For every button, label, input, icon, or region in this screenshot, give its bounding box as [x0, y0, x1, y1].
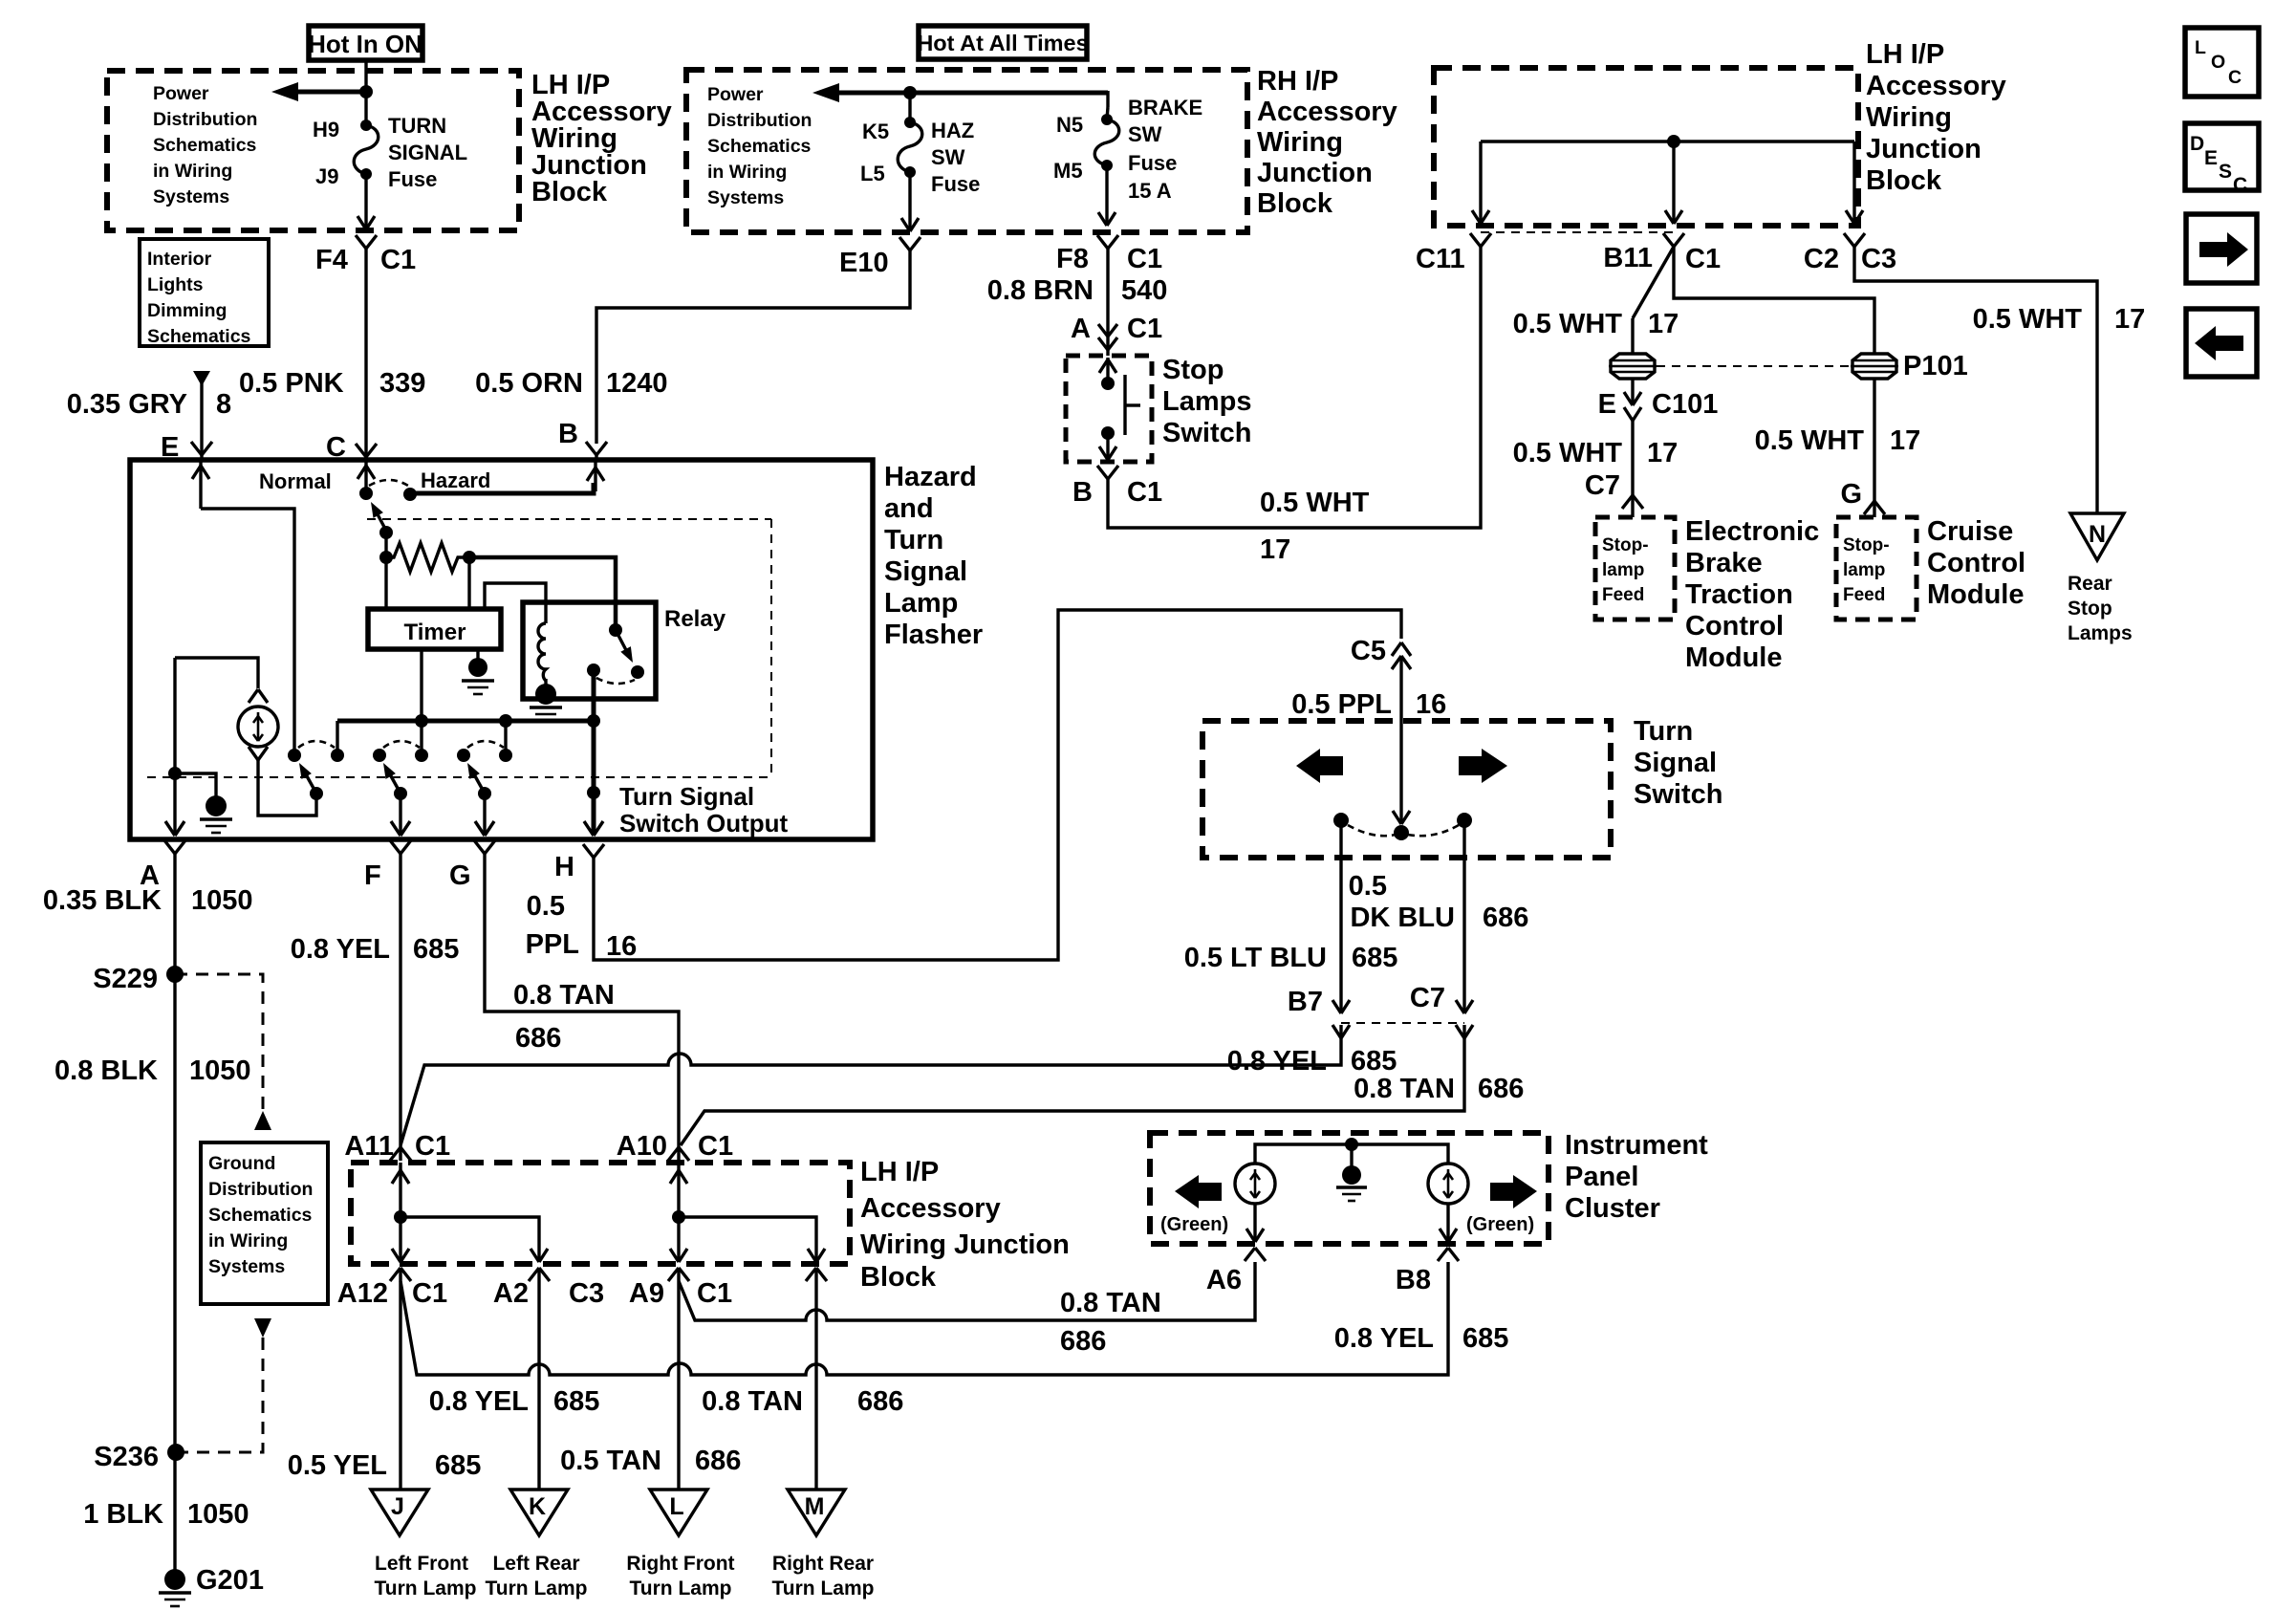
svg-text:J: J	[391, 1493, 404, 1520]
svg-text:685: 685	[413, 934, 459, 965]
icon: left arrow (turn signal)	[1296, 749, 1343, 783]
svg-text:Distribution: Distribution	[153, 109, 257, 130]
value: 0.5 WHT 17 (to EBTCM)	[1513, 438, 1679, 468]
wire: fuse output to F4 with arrow at block edge	[357, 174, 375, 229]
svg-text:Stop: Stop	[1162, 355, 1224, 385]
svg-text:Stop: Stop	[2068, 598, 2112, 620]
pin E / C101	[1598, 389, 1719, 420]
svg-text:0.8 BRN: 0.8 BRN	[987, 275, 1094, 306]
svg-text:Accessory: Accessory	[1257, 97, 1397, 127]
svg-text:N5: N5	[1056, 113, 1083, 137]
svg-text:J9: J9	[315, 164, 338, 188]
svg-text:C1: C1	[697, 1278, 732, 1309]
svg-text:S: S	[2219, 161, 2232, 183]
svg-text:0.5 ORN: 0.5 ORN	[475, 368, 583, 399]
wire: right lamp to B8	[1440, 1204, 1457, 1242]
svg-text:C3: C3	[1861, 244, 1896, 274]
svg-text:(Green): (Green)	[1160, 1214, 1228, 1235]
connector A11/C1 (Y)	[390, 1145, 411, 1161]
svg-text:L: L	[2195, 37, 2206, 58]
svg-text:Power: Power	[707, 84, 764, 105]
svg-text:0.35 GRY: 0.35 GRY	[67, 389, 187, 420]
svg-text:and: and	[884, 493, 934, 524]
value: 0.5 WHT 17 (B11 drop)	[1513, 309, 1679, 339]
svg-text:S236: S236	[94, 1442, 159, 1472]
node: triangle out of ground distribution	[254, 1318, 271, 1338]
text: Cruise Control Module	[1927, 516, 2025, 610]
wire: ground leg of A	[165, 658, 184, 836]
connector M triangle (Right Rear Turn Lamp)	[772, 1490, 875, 1599]
wire: timer left pin to bus	[420, 649, 422, 721]
text: LH I/P Accessory Wiring Junction Block (box1 title)	[531, 70, 672, 207]
wire: dashed down to S236	[177, 1338, 263, 1452]
svg-text:15 A: 15 A	[1128, 179, 1172, 203]
svg-text:Turn: Turn	[884, 525, 943, 555]
svg-text:Distribution: Distribution	[208, 1179, 313, 1200]
wire: C3 to rear stop lamps	[1854, 247, 2097, 513]
nav box LOC	[2185, 28, 2259, 97]
svg-text:D: D	[2190, 133, 2204, 155]
svg-text:A9: A9	[629, 1278, 664, 1309]
connector F4/C1 (Y)	[356, 235, 377, 249]
svg-text:17: 17	[1260, 534, 1290, 565]
svg-text:Systems: Systems	[707, 187, 784, 208]
svg-text:Block: Block	[1866, 165, 1942, 196]
svg-text:B7: B7	[1288, 987, 1323, 1017]
value: 0.8 TAN 686 (A6 feed)	[1060, 1288, 1161, 1357]
fuse F4 TURN SIGNAL (H9/J9)	[354, 120, 379, 180]
text: Power Distribution Schematics in Wiring Systems (box1)	[153, 83, 257, 207]
connector fourth (Y)	[806, 1268, 827, 1281]
value: 0.35 BLK 1050	[43, 885, 253, 916]
switch: relay contact and blade	[587, 623, 644, 684]
node: feed junction dot	[359, 85, 373, 98]
label box "Hot At All Times"	[917, 26, 1088, 59]
wire: Hot In ON feed down to fuse	[364, 60, 367, 125]
wire: E run to switch 1 left contact	[201, 509, 294, 753]
svg-text:F: F	[364, 860, 381, 891]
svg-text:Lamps: Lamps	[1162, 386, 1251, 417]
value: 0.8 TAN 686 (G run)	[513, 980, 615, 1054]
svg-text:686: 686	[1478, 1074, 1524, 1104]
svg-text:0.8 YEL: 0.8 YEL	[1227, 1046, 1327, 1077]
svg-text:0.5 PPL: 0.5 PPL	[1291, 689, 1392, 720]
svg-text:Hot At All Times: Hot At All Times	[917, 31, 1088, 55]
wire: A9 to A6 (0.8 TAN 686 to cluster)	[679, 1262, 1255, 1320]
svg-text:Hazard: Hazard	[884, 462, 977, 492]
node: splice S236	[94, 1442, 184, 1472]
svg-text:Relay: Relay	[664, 606, 726, 632]
value: 0.5 TAN 686 (L)	[560, 1446, 741, 1476]
node: bus dots	[415, 714, 428, 728]
svg-text:O: O	[2211, 52, 2225, 73]
svg-text:B: B	[558, 419, 578, 449]
label box "Hot In ON"	[308, 26, 422, 60]
svg-text:Schematics: Schematics	[208, 1205, 313, 1226]
connector face line B7-C7 (thin dashed)	[1341, 1022, 1464, 1024]
svg-text:0.5: 0.5	[527, 891, 565, 922]
switch: output switch 2 (F)	[373, 741, 428, 836]
svg-text:17: 17	[1647, 438, 1678, 468]
value: 0.5 DK BLU 686	[1349, 871, 1529, 933]
svg-text:Schematics: Schematics	[147, 326, 251, 347]
resistor (flasher timing)	[379, 543, 476, 572]
pin A / C1 at stop lamps switch	[1071, 314, 1162, 344]
svg-text:M: M	[805, 1493, 825, 1520]
wire: dashed S229 to ground distribution	[175, 974, 263, 1111]
value: 0.5 PPL 16 (H drop)	[526, 891, 638, 962]
wire: HAZ fuse output to E10 with arrow	[901, 172, 919, 231]
svg-text:0.5 TAN: 0.5 TAN	[560, 1446, 661, 1476]
svg-text:in Wiring: in Wiring	[153, 161, 232, 182]
wire: C5 into turn signal switch with arrow	[1393, 656, 1410, 824]
svg-text:0.5 LT BLU: 0.5 LT BLU	[1184, 943, 1327, 973]
wire: 0.5 ORN 1240 from E10 to flasher B	[586, 250, 910, 460]
wire: box4 branch A10 to fourth connector	[679, 1217, 825, 1262]
ground: inside flasher	[175, 773, 232, 833]
svg-text:PPL: PPL	[526, 929, 579, 960]
svg-text:Turn Lamp: Turn Lamp	[375, 1577, 477, 1599]
value: HAZ SW Fuse	[931, 119, 980, 196]
svg-text:C: C	[2228, 67, 2242, 88]
component: Hazard and Turn Signal Lamp Flasher box	[130, 460, 873, 839]
svg-text:0.8 YEL: 0.8 YEL	[291, 934, 390, 965]
connector F (Y below flasher)	[390, 840, 411, 854]
svg-text:H: H	[554, 852, 574, 882]
svg-text:A6: A6	[1206, 1265, 1242, 1295]
connector F8/C1 (Y)	[1097, 235, 1118, 249]
svg-text:0.5 WHT: 0.5 WHT	[1513, 309, 1623, 339]
wire: thin dashed connector face line below box3	[1481, 231, 1674, 233]
icon: cluster left arrow indicator	[1175, 1175, 1222, 1208]
wire: C entry arrow	[357, 460, 375, 490]
lamp: flasher indicator branch	[175, 658, 316, 816]
svg-text:685: 685	[1352, 943, 1397, 973]
node: rail dot	[1667, 135, 1680, 148]
component: Relay box	[523, 602, 656, 699]
wire: C1 to P101	[1674, 247, 1874, 353]
svg-text:Interior: Interior	[147, 249, 212, 270]
svg-text:C7: C7	[1585, 470, 1620, 501]
svg-text:Turn Lamp: Turn Lamp	[486, 1577, 588, 1599]
svg-text:16: 16	[1416, 689, 1446, 720]
wire: C101 to C7 with in-connector	[1624, 379, 1641, 495]
svg-text:Power: Power	[153, 83, 209, 104]
value: 0.35 GRY 8	[67, 389, 231, 420]
wire: bus stubs to switch contacts	[337, 721, 506, 753]
svg-text:G: G	[449, 860, 471, 891]
value: 0.5 LT BLU 685	[1184, 943, 1398, 973]
svg-text:Turn Lamp: Turn Lamp	[630, 1577, 732, 1599]
value: 0.8 YEL 685 (B8 feed)	[1334, 1323, 1509, 1354]
svg-text:1240: 1240	[606, 368, 668, 399]
text: Power Distribution Schematics in Wiring Systems (box2)	[707, 84, 812, 208]
junction block 2 dashed box (RH I/P)	[686, 70, 1247, 232]
svg-text:Cluster: Cluster	[1565, 1193, 1660, 1224]
svg-text:Lamp: Lamp	[884, 588, 958, 619]
svg-text:H9: H9	[313, 118, 339, 141]
svg-text:0.8 TAN: 0.8 TAN	[1354, 1074, 1455, 1104]
ground G201	[159, 1565, 264, 1606]
pin B7 / C7	[1288, 983, 1445, 1017]
svg-text:540: 540	[1121, 275, 1167, 306]
svg-text:RH I/P: RH I/P	[1257, 66, 1338, 97]
svg-text:Control: Control	[1927, 548, 2025, 578]
svg-text:TURN: TURN	[388, 114, 446, 138]
svg-text:Switch Output: Switch Output	[619, 809, 789, 838]
svg-text:Accessory: Accessory	[1866, 71, 2006, 101]
junction block 4 dashed box (LH I/P bottom)	[351, 1163, 850, 1264]
value: 1 BLK 1050	[83, 1499, 249, 1530]
svg-text:685: 685	[435, 1450, 481, 1481]
junction block 3 dashed box (LH I/P top right)	[1434, 68, 1858, 226]
connector B/C1 below stop lamps switch (Y)	[1097, 466, 1118, 479]
value: 0.8 BRN 540	[987, 275, 1168, 306]
svg-text:E: E	[1598, 389, 1616, 420]
connector C5 (out, double chevron up)	[1392, 642, 1411, 669]
component: Timer box	[368, 609, 501, 649]
wire: hazard bus to B	[412, 460, 604, 493]
svg-text:G201: G201	[196, 1565, 264, 1596]
svg-text:17: 17	[1648, 309, 1679, 339]
svg-text:Block: Block	[860, 1262, 937, 1293]
component: Turn Signal Switch dashed box	[1202, 721, 1611, 858]
svg-text:Wiring: Wiring	[1257, 127, 1343, 158]
wire: L drop (0.5 TAN 686)	[677, 1281, 680, 1490]
wire: C7 to A10	[681, 1038, 1464, 1145]
wire: F to A11 (0.8 YEL 685)	[399, 854, 401, 1145]
svg-text:0.35 BLK: 0.35 BLK	[43, 885, 162, 916]
svg-text:0.5: 0.5	[1349, 871, 1387, 902]
svg-text:Feed: Feed	[1602, 585, 1644, 605]
svg-text:Schematics: Schematics	[153, 135, 257, 156]
svg-text:S229: S229	[93, 964, 158, 994]
connector P101 inline (lens)	[1851, 354, 1898, 379]
svg-text:Stop-: Stop-	[1602, 535, 1649, 555]
wire: resistor left to timer	[384, 557, 387, 609]
connector A9/C1 (Y)	[668, 1268, 689, 1281]
wire: A12 to B8 (0.8 YEL 685 to cluster)	[401, 1262, 1448, 1375]
wire: 0.5 WHT 17 from stop lamp switch to C11	[1108, 247, 1481, 528]
icon: cluster right arrow indicator	[1490, 1175, 1537, 1208]
svg-text:HAZ: HAZ	[931, 119, 974, 142]
svg-text:685: 685	[1351, 1046, 1397, 1077]
svg-text:1050: 1050	[189, 1055, 251, 1086]
value: 0.5 WHT 17 (horizontal run)	[1260, 488, 1370, 565]
switch: turn signal contacts and wiper	[1333, 813, 1472, 840]
svg-text:0.8 YEL: 0.8 YEL	[429, 1386, 529, 1417]
wire: B7 drop (0.5 LT BLU 685)	[1332, 820, 1350, 1013]
svg-text:1050: 1050	[187, 1499, 249, 1530]
connector A12/C1 (Y)	[390, 1268, 411, 1281]
svg-text:Instrument: Instrument	[1565, 1130, 1708, 1161]
connector C101 inline (lens)	[1609, 354, 1657, 379]
svg-text:K5: K5	[862, 120, 889, 143]
node: triangle into ground distribution	[254, 1111, 271, 1130]
wire: B7 to A11 (bump over TAN)	[401, 1038, 1341, 1145]
svg-text:C1: C1	[698, 1131, 733, 1162]
svg-text:Left Front: Left Front	[375, 1553, 468, 1575]
svg-text:Hot In ON: Hot In ON	[308, 30, 422, 58]
text: Turn Signal Switch	[1634, 716, 1722, 810]
svg-text:in Wiring: in Wiring	[707, 162, 787, 183]
svg-text:0.8 BLK: 0.8 BLK	[54, 1055, 158, 1086]
svg-text:K: K	[529, 1493, 546, 1520]
svg-text:Right Front: Right Front	[626, 1553, 734, 1575]
svg-text:Fuse: Fuse	[931, 172, 980, 196]
svg-text:Switch: Switch	[1162, 418, 1251, 448]
svg-text:Electronic: Electronic	[1685, 516, 1819, 547]
text: Stop Lamps Switch	[1162, 355, 1251, 448]
value: 0.5 WHT 17 (to cruise)	[1755, 425, 1921, 456]
ground: cluster	[1336, 1144, 1367, 1201]
svg-text:G: G	[1840, 479, 1862, 510]
text: LH I/P Accessory Wiring Junction Block (box3 title)	[1866, 39, 2006, 196]
label box: Ground Distribution Schematics in Wiring Systems	[201, 1142, 328, 1304]
svg-text:Right Rear: Right Rear	[772, 1553, 874, 1575]
wire: internal rail of box3	[1472, 141, 1863, 224]
svg-text:P101: P101	[1903, 351, 1968, 381]
component: Stop Lamps Switch dashed box	[1066, 356, 1152, 462]
value: 0.8 TAN 686 (M)	[702, 1386, 903, 1417]
svg-text:1 BLK: 1 BLK	[83, 1499, 163, 1530]
inner dashed mechanism outline	[147, 519, 771, 777]
svg-text:C11: C11	[1416, 244, 1465, 274]
svg-text:C1: C1	[380, 245, 416, 275]
connector B7 (chevron below)	[1332, 1025, 1350, 1038]
svg-text:Lamps: Lamps	[2068, 622, 2133, 644]
svg-text:C5: C5	[1351, 636, 1386, 666]
svg-text:C7: C7	[1410, 983, 1445, 1013]
wire: K drop	[537, 1281, 540, 1490]
svg-text:0.8 TAN: 0.8 TAN	[1060, 1288, 1161, 1318]
connector B8 (Y)	[1438, 1248, 1459, 1261]
svg-text:16: 16	[606, 931, 637, 962]
switch: stop lamp switch contacts	[1099, 358, 1140, 460]
svg-text:0.8 TAN: 0.8 TAN	[702, 1386, 803, 1417]
svg-text:(Green): (Green)	[1466, 1214, 1534, 1235]
wire: left lamp to A6	[1246, 1204, 1264, 1242]
connector G (Y below flasher)	[474, 840, 495, 854]
svg-text:Normal: Normal	[259, 469, 332, 493]
switch: dashed arc normal-hazard	[369, 480, 408, 486]
connector L triangle (Right Front Turn Lamp)	[626, 1490, 734, 1599]
lamp: right turn indicator	[1428, 1164, 1468, 1204]
wire: power distribution arrow to left	[271, 82, 366, 101]
svg-text:Brake: Brake	[1685, 548, 1763, 578]
text: Hazard and Turn Signal Lamp Flasher	[884, 462, 983, 650]
svg-text:E: E	[2204, 147, 2218, 169]
value: BRAKE SW Fuse 15 A	[1128, 96, 1202, 203]
wire: interior lights dimming to E (0.35 GRY 8)	[191, 371, 212, 460]
value: 0.5 ORN 1240	[475, 368, 667, 399]
text: Rear Stop Lamps	[2068, 573, 2133, 644]
ground: relay coil	[530, 679, 562, 721]
connector C7 (chevron below)	[1456, 1025, 1473, 1038]
svg-text:C3: C3	[569, 1278, 604, 1309]
svg-text:Turn Signal: Turn Signal	[619, 782, 754, 811]
svg-text:0.5 WHT: 0.5 WHT	[1260, 488, 1370, 518]
svg-text:L5: L5	[860, 162, 885, 185]
svg-text:Signal: Signal	[1634, 748, 1717, 778]
svg-text:Junction: Junction	[1866, 134, 1982, 164]
icon: right arrow (turn signal)	[1459, 749, 1507, 783]
svg-text:C101: C101	[1652, 389, 1718, 420]
connector A (Y below flasher)	[164, 840, 185, 854]
connector: in-connector to stop lamp switch (double chevron)	[1098, 319, 1117, 356]
wire: cluster internal rail	[1255, 1138, 1448, 1164]
svg-text:Timer: Timer	[404, 620, 466, 645]
wire: resistor right to timer	[467, 557, 470, 609]
value: 0.8 YEL 685 (K)	[429, 1386, 600, 1417]
value: 0.8 YEL 685 (B7 lower)	[1227, 1046, 1397, 1077]
svg-text:686: 686	[1483, 903, 1528, 933]
connector C11 (Y)	[1470, 233, 1491, 247]
svg-text:Dimming: Dimming	[147, 300, 227, 321]
svg-text:Turn: Turn	[1634, 716, 1693, 747]
svg-text:E10: E10	[839, 248, 889, 278]
lamp: left turn indicator	[1235, 1164, 1275, 1204]
wire: box4 internal A11 to A12	[392, 1163, 409, 1262]
switch: hazard contact	[403, 488, 417, 501]
svg-text:Switch: Switch	[1634, 779, 1722, 810]
svg-text:686: 686	[1060, 1326, 1106, 1357]
fuse BRAKE SW (N5/M5)	[1094, 114, 1119, 171]
connector K triangle (Left Rear Turn Lamp)	[486, 1490, 588, 1599]
wire: output bus	[337, 719, 594, 724]
value: TURN SIGNAL Fuse	[388, 114, 467, 191]
svg-text:F8: F8	[1056, 244, 1089, 274]
svg-text:17: 17	[1890, 425, 1920, 456]
svg-text:B11: B11	[1603, 243, 1653, 273]
svg-text:Module: Module	[1927, 579, 2025, 610]
svg-text:C1: C1	[1127, 314, 1162, 344]
svg-text:Junction: Junction	[1257, 158, 1373, 188]
component: Instrument Panel Cluster dashed box	[1150, 1133, 1549, 1244]
svg-text:8: 8	[216, 389, 231, 420]
connector A6 (Y)	[1245, 1248, 1266, 1261]
connector H (Y below flasher)	[583, 844, 604, 858]
svg-text:A2: A2	[493, 1278, 529, 1309]
value: 0.5 WHT 17 (rear stop lamps)	[1973, 304, 2146, 335]
connector B11/C1 (Y)	[1663, 233, 1684, 247]
svg-text:Systems: Systems	[208, 1256, 285, 1277]
value: 0.5 PPL 16 (C5 drop)	[1291, 689, 1446, 720]
svg-text:0.5 WHT: 0.5 WHT	[1755, 425, 1865, 456]
svg-text:0.5 WHT: 0.5 WHT	[1973, 304, 2083, 335]
nav box left arrow	[2186, 309, 2257, 377]
svg-text:lamp: lamp	[1602, 560, 1644, 580]
svg-text:Wiring: Wiring	[1866, 102, 1952, 133]
nav box DESC	[2185, 123, 2259, 196]
svg-text:685: 685	[553, 1386, 599, 1417]
connector C7 (Y)	[1622, 495, 1643, 517]
svg-text:lamp: lamp	[1843, 560, 1885, 580]
svg-text:0.5 WHT: 0.5 WHT	[1513, 438, 1623, 468]
value: 0.8 BLK 1050	[54, 1055, 251, 1086]
switch: flasher blade (normal position)	[371, 502, 393, 557]
svg-text:Flasher: Flasher	[884, 620, 983, 650]
value: 0.8 YEL 685 (F drop)	[291, 934, 460, 965]
svg-text:F4: F4	[315, 245, 348, 275]
svg-text:Signal: Signal	[884, 556, 967, 587]
wire: relay pivot to turn signal switch output	[584, 670, 603, 836]
label box: Interior Lights Dimming Schematics	[140, 239, 269, 347]
svg-text:C1: C1	[1685, 244, 1721, 274]
wire: dot to HAZ fuse	[908, 93, 911, 122]
svg-text:Fuse: Fuse	[1128, 151, 1177, 175]
text: LH I/P Accessory Wiring Junction Block (box4 title)	[860, 1157, 1070, 1293]
